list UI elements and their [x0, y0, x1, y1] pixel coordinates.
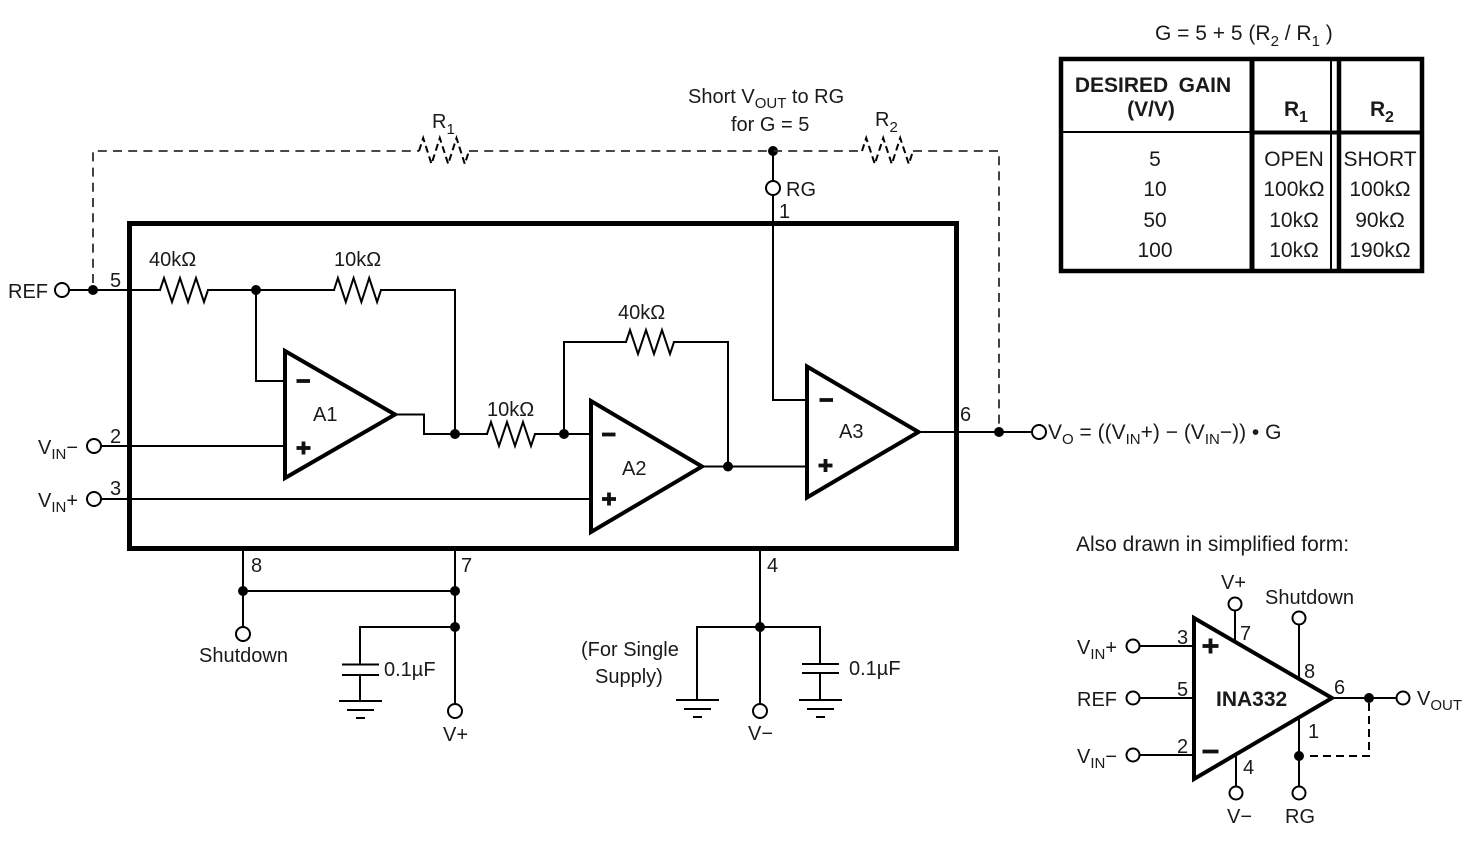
wire simplified output: [1332, 697, 1397, 699]
node output junction: [994, 427, 1004, 437]
wire dashed net left vertical (REF to R1 row): [93, 151, 419, 283]
svg-text:2: 2: [1385, 109, 1394, 126]
ground (V- cap): [800, 700, 841, 717]
svg-text:R: R: [1284, 98, 1299, 121]
svg-text:6: 6: [1334, 677, 1345, 699]
node RG top junction: [768, 146, 778, 156]
label short instruction: [688, 86, 844, 136]
svg-text:0.1µF: 0.1µF: [849, 658, 901, 680]
wire A2 output to A3 plus: [702, 466, 807, 468]
svg-text:5: 5: [1177, 679, 1188, 701]
node A2 minus junction: [559, 429, 569, 439]
svg-text:(For Single: (For Single: [581, 639, 679, 661]
op-amp A2: [591, 401, 702, 532]
svg-text:A1: A1: [313, 404, 337, 426]
svg-text:(V/V): (V/V): [1127, 98, 1175, 121]
svg-text:7: 7: [1240, 623, 1251, 645]
resistor 40k (A2 feedback): [618, 302, 674, 354]
node output junction (simplified): [1364, 693, 1374, 703]
svg-text:A2: A2: [622, 458, 646, 480]
svg-text:Shutdown: Shutdown: [1265, 587, 1354, 609]
svg-text:100kΩ: 100kΩ: [1263, 178, 1324, 201]
wire pin8 to pin7: [243, 590, 455, 592]
resistor 10k (A1 feedback): [334, 249, 381, 302]
svg-text:V−: V−: [1227, 806, 1252, 828]
node A1 out junction: [450, 429, 460, 439]
svg-text:OPEN: OPEN: [1264, 148, 1324, 171]
svg-text:1: 1: [779, 201, 790, 223]
svg-text:INA332: INA332: [1216, 688, 1287, 711]
label for single supply: [581, 639, 679, 688]
svg-text:V+: V+: [1221, 572, 1246, 594]
wire 10k to A2 minus: [535, 433, 591, 435]
svg-text:VO = ((VIN+) − (VIN−)) • G: VO = ((VIN+) − (VIN−)) • G: [1048, 421, 1281, 448]
capacitor 0.1uF (V+): [343, 659, 436, 681]
node RG dashed junction: [1294, 751, 1304, 761]
svg-text:8: 8: [251, 555, 262, 577]
terminal VIN- pin 2: [38, 426, 121, 463]
svg-text:R: R: [1370, 98, 1385, 121]
ground (single supply): [677, 700, 718, 717]
wire A2 feedback down: [674, 342, 728, 467]
terminal RG (simplified pin 1): [1285, 717, 1319, 828]
svg-text:4: 4: [1243, 757, 1254, 779]
svg-text:50: 50: [1143, 209, 1166, 232]
node REF dashed junction: [88, 285, 98, 295]
svg-text:3: 3: [110, 478, 121, 500]
svg-text:190kΩ: 190kΩ: [1349, 239, 1410, 262]
terminal VOUT: [1397, 688, 1463, 714]
wire A1 minus input: [256, 290, 285, 381]
svg-text:DESIRED GAIN: DESIRED GAIN: [1075, 74, 1231, 97]
terminal VIN+ pin 3: [38, 478, 121, 516]
svg-text:2: 2: [1177, 736, 1188, 758]
svg-text:5: 5: [110, 270, 121, 292]
svg-text:8: 8: [1304, 661, 1315, 683]
terminal REF: [8, 281, 69, 303]
node pin8 junction: [238, 586, 248, 596]
resistor R2: [862, 109, 913, 164]
resistor 40k (A1 input): [149, 249, 208, 302]
svg-text:0.1µF: 0.1µF: [384, 659, 436, 681]
node pin4 junction: [755, 622, 765, 632]
svg-text:RG: RG: [786, 179, 816, 201]
svg-text:REF: REF: [1077, 689, 1117, 711]
svg-text:10kΩ: 10kΩ: [1269, 239, 1319, 262]
op-amp U1 simplified INA332: [1194, 618, 1332, 779]
svg-text:90kΩ: 90kΩ: [1355, 209, 1405, 232]
svg-text:40kΩ: 40kΩ: [149, 249, 196, 271]
svg-text:RG: RG: [1285, 806, 1315, 828]
wire VIN+ to A2 plus: [101, 498, 591, 500]
svg-text:100: 100: [1137, 239, 1172, 262]
svg-text:REF: REF: [8, 281, 48, 303]
svg-text:40kΩ: 40kΩ: [618, 302, 665, 324]
wire dashed R1 to RG node: [469, 150, 773, 152]
svg-text:Shutdown: Shutdown: [199, 645, 288, 667]
wire REF to 40k: [69, 289, 160, 291]
wire cap to ground: [359, 675, 361, 701]
svg-text:6: 6: [960, 404, 971, 426]
wire cap branch (V-): [760, 627, 820, 664]
wire A2 feedback up: [564, 342, 626, 434]
wire A3 output: [919, 431, 1033, 433]
wire cap branch (V+): [360, 627, 455, 663]
wire cap to ground (V-): [819, 673, 821, 700]
wire VIN- to A1 plus: [101, 445, 285, 447]
svg-text:10kΩ: 10kΩ: [487, 399, 534, 421]
svg-text:10kΩ: 10kΩ: [1269, 209, 1319, 232]
wire RG stub: [772, 151, 774, 180]
terminal REF (simplified pin 5): [1077, 679, 1194, 711]
svg-text:10: 10: [1143, 178, 1166, 201]
wire A1 output: [395, 415, 487, 435]
terminal VIN+ (simplified pin 3): [1077, 627, 1194, 663]
svg-text:Also drawn in simplified form:: Also drawn in simplified form:: [1076, 533, 1349, 556]
terminal Shutdown: [199, 627, 288, 667]
svg-text:V+: V+: [443, 724, 468, 746]
terminal V-: [748, 704, 773, 745]
resistor R1: [419, 111, 469, 164]
op-amp A3: [807, 367, 919, 498]
svg-text:7: 7: [461, 555, 472, 577]
terminal V- (simplified pin 4): [1227, 754, 1254, 828]
wire pin 7 stub: [454, 548, 456, 704]
wire RG vertical into box to A3 minus: [773, 195, 807, 400]
wire 40k to 10k: [208, 289, 334, 291]
node pin7 junction: [450, 586, 460, 596]
wire dashed VOUT to RG: [1306, 703, 1369, 756]
wire 10k to A1 output node: [381, 290, 455, 434]
wire pin 4 stub: [759, 548, 761, 704]
svg-text:1: 1: [1299, 109, 1308, 126]
svg-text:Supply): Supply): [595, 666, 663, 688]
resistor 10k (series to A2): [487, 399, 535, 446]
terminal RG pin 1: [766, 181, 780, 195]
terminal V+: [443, 704, 468, 746]
table gain selection: [1061, 59, 1422, 271]
svg-text:100kΩ: 100kΩ: [1349, 178, 1410, 201]
terminal V+ (simplified pin 7): [1221, 572, 1251, 645]
svg-text:2: 2: [110, 426, 121, 448]
svg-text:for G = 5: for G = 5: [731, 114, 809, 136]
terminal Shutdown (simplified pin 8): [1265, 587, 1354, 683]
svg-text:SHORT: SHORT: [1343, 148, 1416, 171]
wire dashed RG node to R2: [773, 150, 862, 152]
node A2 out junction: [723, 462, 733, 472]
svg-text:3: 3: [1177, 627, 1188, 649]
svg-text:4: 4: [767, 555, 778, 577]
node A1 minus junction: [251, 285, 261, 295]
svg-text:10kΩ: 10kΩ: [334, 249, 381, 271]
svg-text:A3: A3: [839, 421, 863, 443]
op-amp A1: [285, 351, 395, 478]
svg-text:1: 1: [1308, 721, 1319, 743]
node pin7 cap junction: [450, 622, 460, 632]
capacitor 0.1uF (V-): [803, 658, 901, 680]
svg-text:5: 5: [1149, 148, 1161, 171]
svg-text:V−: V−: [748, 723, 773, 745]
ground (V+ cap): [340, 701, 381, 718]
IC boundary box: [130, 224, 957, 549]
wire dashed R2 to output, down right side: [913, 151, 999, 426]
terminal VO output: [1032, 425, 1046, 439]
wire pin 8 stub: [242, 548, 244, 627]
terminal VIN- (simplified pin 2): [1077, 736, 1194, 772]
wire single supply branch: [697, 627, 760, 700]
